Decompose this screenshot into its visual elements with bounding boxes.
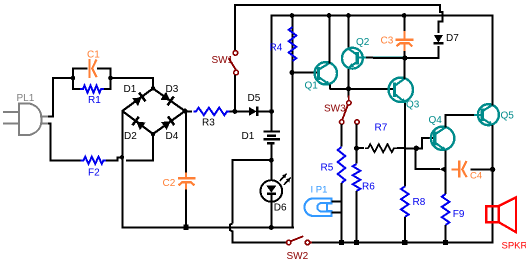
resistor R3	[194, 108, 230, 116]
svg-text:SW3: SW3	[324, 104, 346, 115]
svg-text:R5: R5	[321, 163, 334, 174]
arrow on C4 row (emitter arrowhead)	[440, 166, 447, 173]
svg-text:D7: D7	[446, 33, 459, 44]
node: SW1 bottom / D5 left junction	[232, 109, 237, 114]
svg-text:D1: D1	[124, 84, 137, 95]
node: D5 right junction	[269, 109, 274, 114]
svg-text:F9: F9	[453, 209, 465, 220]
speaker SPKR (red)	[486, 206, 498, 222]
svg-text:D2: D2	[124, 131, 137, 142]
resistor R7 (black zigzag)	[357, 147, 365, 149]
svg-text:Q1: Q1	[305, 81, 319, 92]
wire: top inner rail	[270, 16, 272, 112]
node: step junction	[120, 155, 124, 159]
wire: right vertex to R3	[185, 110, 192, 112]
svg-text:SPKR: SPKR	[502, 241, 526, 252]
wire: R6 bottom to rail	[356, 191, 358, 243]
svg-text:F2: F2	[88, 168, 100, 179]
resistor F9	[442, 194, 450, 225]
svg-text:PL1: PL1	[17, 93, 35, 104]
wire: emitter row to Q3 base	[329, 88, 395, 90]
svg-text:D3: D3	[166, 84, 179, 95]
transistor Q3	[389, 78, 413, 102]
LED D6	[270, 160, 272, 180]
transistor Q1	[315, 62, 337, 84]
svg-text:I P1: I P1	[311, 185, 328, 196]
wire: fuse to DC- column with step	[106, 157, 122, 160]
svg-text:R7: R7	[375, 123, 388, 134]
svg-text:Q3: Q3	[406, 100, 420, 111]
svg-text:Q2: Q2	[356, 37, 370, 48]
svg-text:SW2: SW2	[287, 251, 309, 262]
diode D1 (bridge, left-top edge)	[132, 97, 142, 106]
wire: D5 to battery column	[259, 110, 272, 112]
svg-text:R3: R3	[202, 118, 215, 129]
node: rail B squares	[339, 240, 344, 245]
wire: plug top terminal riser to C1/R1 node	[47, 78, 71, 117]
diode D2 (bridge, bottom-left edge)	[136, 121, 146, 130]
switch SW1 (vertical, dark red)	[234, 4, 236, 51]
wire: Q4 collector up and over to Q5 base	[446, 115, 474, 128]
wire: C4 to right rail	[471, 168, 493, 170]
wire: junction down to C4 row	[416, 148, 440, 169]
wire: node to bridge top vertex	[111, 78, 153, 89]
wire: top outer rail from SW1	[235, 5, 443, 16]
wire: Q5 collector riser	[492, 16, 494, 106]
wire: right rail down to speaker/bottom rail	[492, 169, 494, 242]
wire: Q2 base row to C3/D7 junction	[359, 57, 405, 59]
capacitor C3	[403, 16, 405, 32]
wire: Q4 emitter down to C4 row	[445, 151, 447, 170]
transistor Q5	[478, 104, 499, 125]
wire: bottom rail (right section)	[311, 242, 494, 244]
wire: junction to D7	[405, 46, 439, 58]
diode D3 (bridge, top-right edge)	[161, 92, 171, 101]
svg-text:R1: R1	[88, 95, 101, 106]
capacitor C4	[451, 168, 459, 170]
diode D5	[249, 107, 257, 116]
node: R7 left junction	[354, 146, 359, 151]
transistor Q4	[431, 127, 454, 150]
wire: R7 right into Q3-emitter column and link to Q4 node	[397, 147, 405, 149]
wire: D6 box left edge	[233, 160, 272, 223]
transistor Q2 (mirrored)	[347, 16, 349, 49]
node: bridge right vertex	[183, 109, 188, 114]
wire: Q1 base	[292, 72, 319, 74]
wire: Q1 collector riser	[328, 16, 330, 64]
svg-text:R4: R4	[270, 43, 283, 54]
wire: plug bottom terminal drop to fuse row	[47, 124, 81, 161]
wire: F9 column from C4 row	[445, 169, 447, 194]
wire: F9 bottom to rail	[445, 225, 447, 243]
resistor R5	[338, 147, 346, 183]
svg-text:R6: R6	[362, 182, 375, 193]
switch SW2 (dark red, horizontal)	[287, 240, 291, 244]
diode D7 (vertical, cathode down)	[434, 35, 443, 43]
wire: Q3 collector to C3 junction	[404, 58, 406, 79]
wire: D7 riser Z-jog	[438, 16, 442, 34]
wire: R5 bottom to bottom rail	[341, 183, 343, 243]
wire: R3 to D5 node	[230, 110, 250, 112]
resistor R4	[289, 27, 297, 61]
wire: bridge bottom vertex jog	[126, 133, 153, 160]
svg-text:R8: R8	[413, 197, 426, 208]
node: emitter row junction (SW3 tap)	[346, 86, 351, 91]
wire: Q5 emitter down to C4 node	[492, 125, 494, 169]
node: Q1 collector top	[327, 13, 332, 18]
node: C1R1 right junction	[108, 76, 113, 81]
svg-text:D5: D5	[248, 93, 261, 104]
wire: bridge left vertex down to bottom rail	[121, 110, 123, 228]
diode D4 (bridge, bottom-right edge)	[161, 121, 171, 130]
resistor R1	[80, 86, 104, 93]
node: Q4 base feed junction	[414, 146, 419, 151]
svg-text:SW1: SW1	[212, 55, 234, 66]
resistor R6	[353, 164, 361, 191]
wire: SW3 left throw down to R5	[341, 124, 343, 146]
svg-text:C4: C4	[470, 171, 482, 182]
node: C1R1 left junction	[71, 76, 76, 81]
wire: R4 / D6-box right column	[292, 16, 294, 229]
wire: SW3 right throw down to R6	[356, 124, 358, 163]
svg-text:C1: C1	[87, 50, 100, 61]
svg-text:D6: D6	[274, 203, 287, 214]
LED D6 arrows	[280, 174, 287, 181]
wire: Q3 emitter column down through R7 node to R8	[404, 103, 406, 187]
svg-text:D4: D4	[166, 131, 179, 142]
capacitor C2	[185, 111, 187, 172]
node: C4 right junction	[490, 167, 495, 172]
wire: right top rail corner down	[492, 16, 494, 105]
bridge rectifier diamond wires D1-D4	[122, 89, 185, 135]
node: R4 bottom / Q1 base junction	[290, 70, 295, 75]
capacitor C1	[88, 59, 90, 78]
svg-text:C2: C2	[163, 178, 176, 189]
wire: bottom rail (lower left)	[121, 226, 294, 228]
node: Q2 base / C3 / D7 junction	[402, 55, 407, 60]
node: LED bottom junction	[269, 225, 274, 230]
wire: R8 bottom to rail	[404, 217, 406, 243]
node: battery/LED top junction	[269, 158, 274, 163]
svg-text:Q5: Q5	[501, 111, 515, 122]
fuse F2	[81, 157, 107, 164]
wire: junction up to Q4 base	[416, 138, 435, 148]
node: bridge bottom vertex	[151, 132, 155, 136]
node: R4 top	[290, 13, 295, 18]
battery D1 (labeled D1)	[270, 111, 272, 131]
node: bridge top vertex	[151, 86, 155, 90]
wire: hop over bottom rail then to SW2	[230, 223, 286, 242]
node: Q2 collector top	[346, 13, 351, 18]
svg-text:D1: D1	[242, 131, 255, 142]
svg-text:C3: C3	[381, 36, 394, 47]
node: C3 top	[402, 13, 407, 18]
wire: IP1 leads	[332, 200, 342, 202]
lamp IP1 (bright blue indicator)	[304, 198, 331, 216]
resistor R8	[401, 187, 409, 218]
wire: Q1 emitter drop	[329, 85, 331, 89]
wire: C1/R1 parallel frame	[73, 68, 88, 78]
node: C2 bottom on rail	[183, 225, 188, 230]
switch SW3 (dark red)	[348, 89, 350, 98]
svg-text:Q4: Q4	[429, 115, 443, 126]
connector PL1 (AC plug, gray)	[19, 104, 42, 135]
